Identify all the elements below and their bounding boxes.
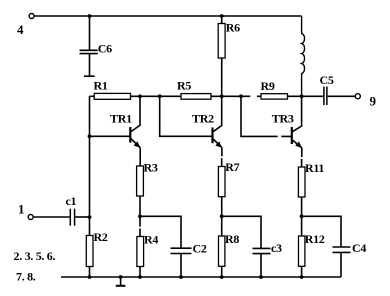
svg-text:c3: c3 — [271, 241, 282, 255]
wire C4 to ground rail — [340, 253, 342, 277]
wire ground rail — [61, 276, 341, 278]
svg-text:1: 1 — [18, 202, 25, 217]
node emitter 1 junction — [138, 214, 142, 218]
wire R1 to R5 — [131, 95, 182, 97]
resistor R12 — [299, 216, 325, 277]
wire TR2 base takeoff — [160, 96, 212, 136]
node top-rail / C6 junction — [88, 14, 92, 18]
resistor R6 — [218, 16, 240, 96]
node R12 / ground rail junction — [300, 275, 304, 279]
node emitter 2 junction — [220, 214, 224, 218]
svg-text:R7: R7 — [225, 160, 239, 174]
capacitor C5 — [320, 73, 334, 105]
wire emitter node 2 to c3 — [222, 216, 261, 248]
wire terminal 1 to c1 — [33, 216, 70, 218]
resistor R8 — [219, 216, 240, 277]
wire R3 to emitter node 1 — [139, 196, 141, 216]
svg-text:C2: C2 — [193, 241, 207, 255]
svg-text:R12: R12 — [305, 232, 325, 246]
wire R7 to emitter node 2 — [221, 197, 223, 217]
inductor L1 (coil) — [302, 16, 305, 96]
resistor R3 — [137, 160, 158, 196]
svg-text:R11: R11 — [305, 161, 324, 175]
svg-text:R9: R9 — [261, 79, 275, 93]
svg-text:TR3: TR3 — [272, 112, 294, 126]
wire TR3 base takeoff (with break) — [241, 96, 291, 136]
svg-text:R4: R4 — [144, 233, 158, 247]
svg-text:7. 8.: 7. 8. — [16, 269, 36, 283]
node TR3 base takeoff junction — [239, 94, 243, 98]
node TR2 base takeoff junction — [158, 94, 162, 98]
svg-text:C5: C5 — [320, 73, 334, 87]
wire R9 to C5 — [288, 95, 324, 97]
wire C5 to terminal 9 — [328, 95, 356, 97]
node R4 / ground rail junction — [138, 275, 142, 279]
wire c1 to base rail — [75, 216, 89, 218]
node c3 / ground rail junction — [259, 275, 263, 279]
node TR1 base junction — [88, 134, 92, 138]
svg-text:R2: R2 — [94, 230, 108, 244]
terminal 9 — [355, 94, 376, 109]
svg-text:R1: R1 — [94, 79, 108, 93]
wire c3 to ground rail — [260, 254, 262, 277]
node R8 / ground rail junction — [220, 275, 224, 279]
resistor R2 — [86, 230, 108, 277]
terminal 1 — [18, 202, 33, 220]
node TR1 collector junction — [138, 94, 142, 98]
capacitor c1 — [66, 194, 77, 226]
resistor R11 — [298, 161, 324, 197]
wire TR3 emitter to R11 — [301, 148, 303, 167]
wire top supply rail — [34, 15, 301, 17]
wire left bias rail — [89, 96, 91, 235]
wire TR1 emitter to R3 — [139, 148, 141, 166]
terminal 4 — [17, 14, 34, 38]
wire emitter node 3 to C4 — [302, 216, 341, 247]
svg-text:R6: R6 — [226, 21, 240, 35]
resistor R1 — [94, 79, 131, 100]
svg-text:9: 9 — [370, 94, 377, 109]
node emitter 3 junction — [300, 214, 304, 218]
svg-text:C6: C6 — [98, 42, 112, 56]
svg-text:TR1: TR1 — [110, 112, 132, 126]
wire R1 left lead — [90, 95, 95, 97]
wire R5 to R9 (with break) — [211, 95, 261, 97]
wire C2 to ground rail — [180, 254, 182, 277]
transistor TR2 — [192, 96, 222, 147]
node top-rail / R6 junction — [220, 14, 224, 18]
node C2 / ground rail junction — [179, 275, 183, 279]
ground — [116, 277, 126, 286]
node c1 / base rail junction — [88, 215, 92, 219]
node R2 / ground rail junction — [88, 275, 92, 279]
svg-text:c1: c1 — [66, 194, 77, 208]
transistor TR3 — [272, 96, 302, 148]
capacitor C4 — [333, 241, 367, 255]
capacitor C6 — [80, 16, 113, 76]
svg-text:TR2: TR2 — [192, 111, 214, 125]
wire emitter node 1 to C2 — [140, 216, 181, 248]
svg-text:4: 4 — [17, 22, 24, 37]
svg-text:2. 3. 5. 6.: 2. 3. 5. 6. — [14, 249, 56, 263]
svg-text:R3: R3 — [144, 160, 158, 174]
capacitor C2 — [171, 241, 207, 255]
node coil / TR3 collector / C5 junction — [300, 94, 304, 98]
svg-text:C4: C4 — [352, 241, 366, 255]
node ground symbol junction — [119, 275, 123, 279]
resistor R7 — [218, 160, 239, 197]
resistor R5 — [177, 79, 211, 100]
node R6 / TR2 collector junction — [220, 94, 224, 98]
resistor R4 — [137, 216, 158, 277]
wire TR2 emitter to R7 — [221, 148, 223, 167]
capacitor c3 — [253, 241, 283, 255]
resistor R9 — [261, 79, 288, 99]
svg-text:R5: R5 — [177, 79, 191, 93]
svg-text:R8: R8 — [225, 232, 239, 246]
transistor TR1 — [90, 96, 141, 147]
wire R11 to emitter node 3 — [301, 197, 303, 216]
